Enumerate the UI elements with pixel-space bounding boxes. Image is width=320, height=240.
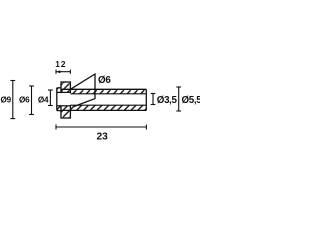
stub bore bottom line [57,105,71,107]
svg-text:Ø3,5: Ø3,5 [157,95,178,106]
tube outer top edge [61,88,146,90]
svg-text:Ø9: Ø9 [0,96,11,105]
svg-text:Ø5,5: Ø5,5 [182,95,201,106]
tube right end edge [145,89,147,110]
dim line 23 [56,125,146,130]
svg-text:1: 1 [55,59,60,69]
svg-text:23: 23 [97,132,109,143]
tube bore top line [70,93,146,95]
cone silhouette [70,74,95,107]
svg-text:Ø4: Ø4 [38,96,49,105]
dot separator of 1 2 [58,70,61,73]
svg-text:2: 2 [61,59,66,69]
dim line diameter 6 left [29,86,34,115]
stub outer top edge [57,87,61,89]
dim line diameter 3,5 [151,94,156,105]
bore white gap across flange [60,93,72,105]
tube outer bottom edge [61,109,146,111]
dim line diameter 9 [10,81,15,119]
flange hatched body lower block [61,106,70,118]
svg-text:Ø6: Ø6 [19,96,30,105]
tube top wall hatch [70,89,146,94]
left stub bottom wall hatch [57,106,61,111]
left stub top wall hatch [57,88,61,93]
dim line diameter 4 [48,90,53,106]
tube bore bottom line [70,104,146,106]
stub bore top line [57,91,71,93]
left end edge of stub [56,88,58,111]
dim line diameter 5,5 [176,87,181,111]
flange hatched body upper block [61,82,70,92]
stub outer bottom edge [57,110,61,112]
svg-text:Ø6: Ø6 [98,75,111,86]
tube bottom wall hatch [70,105,146,110]
dim line 1 2 [56,70,70,74]
flange outline [61,82,70,118]
